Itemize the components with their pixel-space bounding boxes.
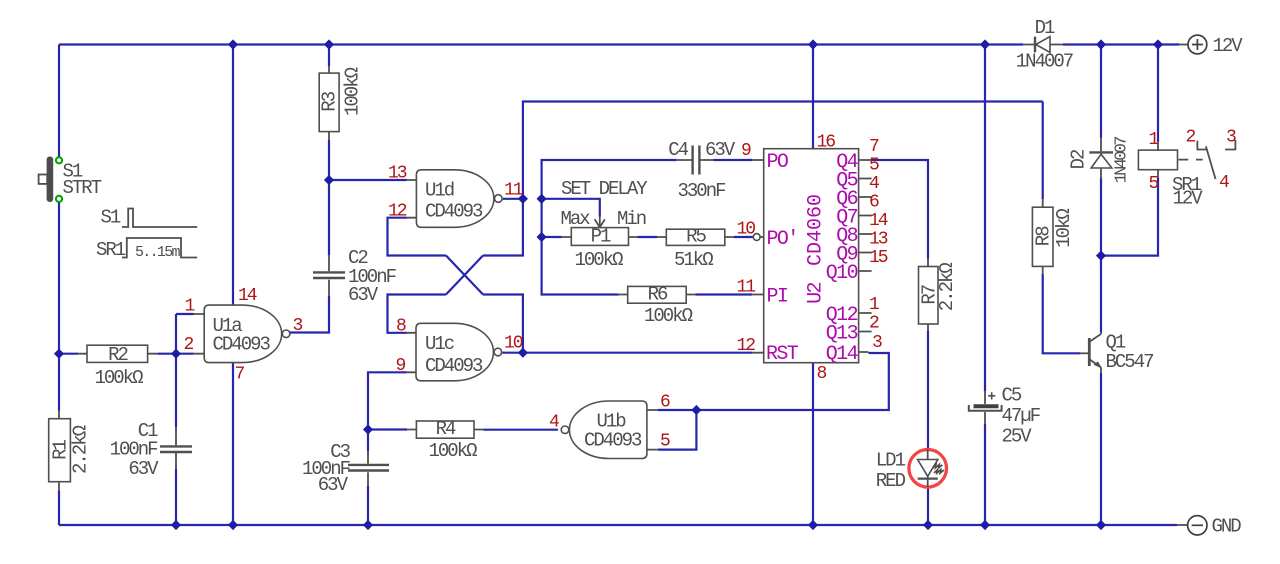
svg-text:S1: S1 xyxy=(101,207,121,229)
resistor R5 51k xyxy=(657,226,734,272)
svg-text:GND: GND xyxy=(1212,516,1242,538)
svg-text:CD4093: CD4093 xyxy=(584,430,642,452)
junction C3 R4 node xyxy=(363,424,373,434)
svg-text:2.2kΩ: 2.2kΩ xyxy=(70,425,92,474)
svg-text:C4: C4 xyxy=(668,139,688,161)
wire U1b pin5 xyxy=(658,410,696,450)
svg-text:R1: R1 xyxy=(50,440,72,460)
IC U2 CD4060 xyxy=(737,133,888,385)
wire R5 to U2 PO' bubble xyxy=(734,236,753,238)
transistor Q1 BC547 xyxy=(1080,332,1153,374)
svg-text:R3: R3 xyxy=(319,91,341,111)
capacitor C4 330nF 63V xyxy=(668,139,751,202)
wire R3 to node13 to C2 xyxy=(328,140,330,255)
SET DELAY label and wiper arrow xyxy=(561,178,649,230)
wire +12V to D2 xyxy=(1100,45,1102,138)
op-amp gate U1d CD4093 xyxy=(388,164,523,228)
wire R1 bottom to GND rail xyxy=(58,490,60,525)
capacitor C5 47uF 25V electrolytic xyxy=(969,385,1041,448)
svg-text:5: 5 xyxy=(1149,174,1159,194)
junction top rail x233 xyxy=(228,39,238,49)
timing diagram SR1 pulse 5..15m xyxy=(96,238,197,261)
junction bottom rail x1101 xyxy=(1096,520,1106,530)
svg-text:14: 14 xyxy=(238,286,257,306)
LED LD1 RED xyxy=(876,449,947,492)
svg-text:Max: Max xyxy=(561,208,591,230)
wire C4 right to U2 PO xyxy=(714,159,753,161)
svg-text:6: 6 xyxy=(869,193,879,213)
svg-text:100kΩ: 100kΩ xyxy=(94,367,143,389)
svg-text:11: 11 xyxy=(737,278,756,298)
wire flyback node to SR1 pin5 xyxy=(1101,178,1158,256)
op-amp gate U1a CD4093 xyxy=(184,286,303,385)
svg-text:8: 8 xyxy=(396,317,406,337)
wire U1d pin12 to cross xyxy=(388,218,447,256)
wire C4 left to latch node xyxy=(542,160,677,295)
junction latch node P1 xyxy=(537,232,547,242)
svg-text:2: 2 xyxy=(1186,128,1196,148)
svg-text:3: 3 xyxy=(1226,128,1236,148)
junction flyback node xyxy=(1096,251,1106,261)
junction bottom rail x233 xyxy=(228,520,238,530)
junction latch node wiper xyxy=(537,194,547,204)
svg-text:SR1: SR1 xyxy=(96,239,126,261)
wire flyback node to Q1 collector xyxy=(1100,256,1102,333)
svg-text:9: 9 xyxy=(396,356,406,376)
svg-text:7: 7 xyxy=(235,365,245,385)
svg-text:7: 7 xyxy=(869,137,879,157)
junction top rail x813 xyxy=(808,39,818,49)
wire U1a pin7 to GND xyxy=(232,363,234,526)
wire U1d out node up to relay-drive run xyxy=(523,102,1043,199)
svg-text:25V: 25V xyxy=(1002,426,1033,448)
junction bottom rail x368 xyxy=(363,520,373,530)
wire +12V top rail right of D1 xyxy=(1063,43,1179,45)
wire C5 bottom leg xyxy=(984,424,986,525)
svg-text:11: 11 xyxy=(504,181,523,201)
svg-text:5: 5 xyxy=(869,156,879,176)
svg-text:13: 13 xyxy=(388,164,407,184)
diode D2 1N4007 xyxy=(1068,137,1132,184)
op-amp gate U1c CD4093 xyxy=(396,317,523,381)
wire R6 right to U2 PI xyxy=(696,293,753,295)
wire left rail S1 to R2 node to R1 xyxy=(58,202,60,411)
wire P1 to R5 xyxy=(637,236,657,238)
svg-text:2: 2 xyxy=(869,314,879,334)
capacitor C3 100nF 63V xyxy=(302,441,389,496)
svg-text:63V: 63V xyxy=(348,284,379,306)
svg-text:8: 8 xyxy=(817,364,827,384)
svg-text:CD4060: CD4060 xyxy=(805,194,828,266)
svg-text:R4: R4 xyxy=(436,418,456,440)
svg-text:U1d: U1d xyxy=(425,180,454,202)
svg-text:16: 16 xyxy=(817,133,836,153)
wire U1b inputs to U2 Q14 xyxy=(696,353,888,410)
svg-text:R8: R8 xyxy=(1033,226,1055,246)
wire R8 bottom to Q1 base xyxy=(1043,274,1080,353)
junction U1a pin2 node xyxy=(171,349,181,359)
wire U1d output xyxy=(503,198,523,200)
svg-text:12V: 12V xyxy=(1213,35,1244,57)
svg-text:1: 1 xyxy=(185,297,195,317)
svg-text:10kΩ: 10kΩ xyxy=(1053,209,1075,248)
svg-text:12V: 12V xyxy=(1173,187,1204,209)
svg-text:CD4093: CD4093 xyxy=(213,334,271,356)
svg-text:Q10: Q10 xyxy=(826,262,858,285)
svg-text:10: 10 xyxy=(737,220,756,240)
wire C3 node to R4 xyxy=(368,428,407,430)
junction bottom rail x813 xyxy=(808,520,818,530)
wire U1a pin14 to +12V xyxy=(232,45,234,306)
switch S1 STRT xyxy=(39,157,102,203)
svg-text:5..15m: 5..15m xyxy=(135,244,181,261)
wire U1b pin6 xyxy=(658,409,696,411)
svg-text:RED: RED xyxy=(876,470,906,492)
resistor R1 2.2k xyxy=(49,411,92,491)
wire C3 to GND rail xyxy=(367,486,369,525)
svg-text:6: 6 xyxy=(660,393,670,413)
wire D2 to flyback node xyxy=(1100,178,1102,256)
wire R7 to LED xyxy=(927,331,929,449)
svg-text:12: 12 xyxy=(388,202,407,222)
relay SR1 contact pins 2 3 4 xyxy=(1186,128,1237,194)
wire U1a pin1 xyxy=(176,313,194,315)
junction R3 pin13 node xyxy=(324,175,334,185)
svg-text:47µF: 47µF xyxy=(1002,405,1041,427)
junction U1d output node xyxy=(518,194,528,204)
junction top rail x985 xyxy=(980,39,990,49)
svg-text:1N4007: 1N4007 xyxy=(1016,51,1073,73)
svg-text:D2: D2 xyxy=(1068,149,1090,169)
svg-text:U2: U2 xyxy=(805,283,828,304)
svg-text:C5: C5 xyxy=(1002,385,1022,407)
capacitor C1 100nF 63V xyxy=(110,420,192,480)
svg-text:1: 1 xyxy=(869,295,879,315)
resistor R8 10k xyxy=(1032,199,1075,274)
wire SR1 pin1 to +12V xyxy=(1157,45,1159,142)
wire cross diagonal to U1d pin12 xyxy=(446,256,483,295)
svg-text:SET DELAY: SET DELAY xyxy=(561,178,648,200)
svg-text:100kΩ: 100kΩ xyxy=(428,440,477,462)
junction bottom rail x985 xyxy=(980,520,990,530)
svg-text:BC547: BC547 xyxy=(1106,351,1154,373)
wire U2 pin8 to GND xyxy=(812,363,814,525)
op-amp gate U1b CD4093 mirrored xyxy=(549,393,670,459)
svg-text:R5: R5 xyxy=(686,226,706,248)
wire U1c output to U2 RST xyxy=(503,352,753,354)
svg-text:9: 9 xyxy=(741,141,751,161)
junction top rail x329 xyxy=(324,39,334,49)
wire U1c pin9 to C3 column xyxy=(368,372,407,451)
+12V supply terminal xyxy=(1179,35,1243,57)
svg-text:13: 13 xyxy=(869,230,888,250)
wire R8 top leg xyxy=(1042,102,1044,200)
timing diagram S1 pulse xyxy=(101,207,198,229)
wire R4 to U1b output xyxy=(484,429,559,431)
svg-text:4: 4 xyxy=(1219,173,1229,193)
wire U1d out down-leg to cross xyxy=(483,199,523,256)
wire left rail above S1 xyxy=(58,45,60,158)
relay SR1 12V coil xyxy=(1138,130,1203,209)
svg-text:100kΩ: 100kΩ xyxy=(575,249,624,271)
wire GND bottom rail xyxy=(59,524,1177,526)
svg-text:PO: PO xyxy=(767,151,788,174)
junction left rail R2 xyxy=(54,349,64,359)
wire +12V top rail left of D1 xyxy=(59,43,1023,45)
svg-text:LD1: LD1 xyxy=(876,450,906,472)
svg-text:100kΩ: 100kΩ xyxy=(342,67,364,116)
svg-text:U1c: U1c xyxy=(425,333,455,355)
resistor R4 100k xyxy=(407,418,484,462)
wire R2 left to left rail xyxy=(59,353,78,355)
wire node13 to U1d pin13 xyxy=(329,179,407,181)
potentiometer P1 100k xyxy=(562,226,638,272)
svg-text:14: 14 xyxy=(869,211,888,231)
svg-text:PI: PI xyxy=(767,286,788,309)
wire cross diagonal to U1c pin8 xyxy=(446,256,483,295)
wire U2 pin16 to +12V xyxy=(812,45,814,149)
wire U1a pin2 xyxy=(176,353,194,355)
svg-text:100kΩ: 100kΩ xyxy=(644,305,693,327)
wire set-delay wiper feed xyxy=(542,199,600,217)
svg-text:Min: Min xyxy=(617,208,646,230)
svg-text:3: 3 xyxy=(293,316,303,336)
svg-text:2.2kΩ: 2.2kΩ xyxy=(936,263,958,312)
wire Q1 emitter to GND xyxy=(1100,373,1102,525)
capacitor C2 100nF 63V xyxy=(313,247,397,306)
resistor R3 100k xyxy=(319,66,364,140)
wire C2 to U1a output xyxy=(290,296,330,333)
svg-text:CD4093: CD4093 xyxy=(425,355,483,377)
svg-text:R6: R6 xyxy=(648,284,668,306)
svg-text:4: 4 xyxy=(549,413,559,433)
svg-text:100nF: 100nF xyxy=(110,438,159,460)
GND terminal xyxy=(1177,516,1241,538)
wire R2 right to pin2 node xyxy=(158,353,176,355)
svg-text:RST: RST xyxy=(766,343,799,366)
wire P1 left xyxy=(542,236,562,238)
svg-text:10: 10 xyxy=(504,334,523,354)
svg-text:1N4007: 1N4007 xyxy=(1113,137,1132,184)
svg-text:1: 1 xyxy=(1149,130,1159,150)
svg-text:63V: 63V xyxy=(705,139,736,161)
svg-text:63V: 63V xyxy=(318,474,349,496)
wire C1 column xyxy=(175,314,177,525)
wire U1c out up-leg to cross xyxy=(483,295,523,353)
svg-text:STRT: STRT xyxy=(63,177,102,199)
svg-text:330nF: 330nF xyxy=(677,180,726,202)
resistor R2 100k xyxy=(78,344,158,389)
wire U2 Q4 to R7 xyxy=(872,160,928,259)
wire +12V to R3 xyxy=(328,45,330,67)
wire cross to U1c pin8 xyxy=(388,295,447,333)
svg-text:4: 4 xyxy=(869,174,879,194)
svg-text:PO': PO' xyxy=(767,228,798,251)
svg-text:Q14: Q14 xyxy=(826,343,858,366)
resistor R7 2.2k xyxy=(919,259,959,332)
junction bottom rail x176 xyxy=(171,520,181,530)
svg-text:12: 12 xyxy=(737,336,756,356)
wire LED to GND xyxy=(927,487,929,525)
junction U1b input node xyxy=(691,405,701,415)
junction top rail x1101 xyxy=(1096,39,1106,49)
svg-text:51kΩ: 51kΩ xyxy=(674,249,713,271)
svg-text:3: 3 xyxy=(872,333,882,353)
diode D1 1N4007 xyxy=(1016,17,1073,73)
svg-text:CD4093: CD4093 xyxy=(425,201,483,223)
svg-text:2: 2 xyxy=(184,335,194,355)
svg-text:63V: 63V xyxy=(128,458,159,480)
svg-text:15: 15 xyxy=(869,248,888,268)
junction bottom rail x928 xyxy=(923,520,933,530)
resistor R6 100k xyxy=(619,284,696,328)
svg-text:D1: D1 xyxy=(1035,17,1055,39)
svg-text:5: 5 xyxy=(660,432,670,452)
wire C5 top leg xyxy=(984,45,986,392)
junction top rail x1158 xyxy=(1153,39,1163,49)
svg-text:R2: R2 xyxy=(108,344,128,366)
svg-text:P1: P1 xyxy=(591,226,611,248)
junction U1c output node xyxy=(518,348,528,358)
